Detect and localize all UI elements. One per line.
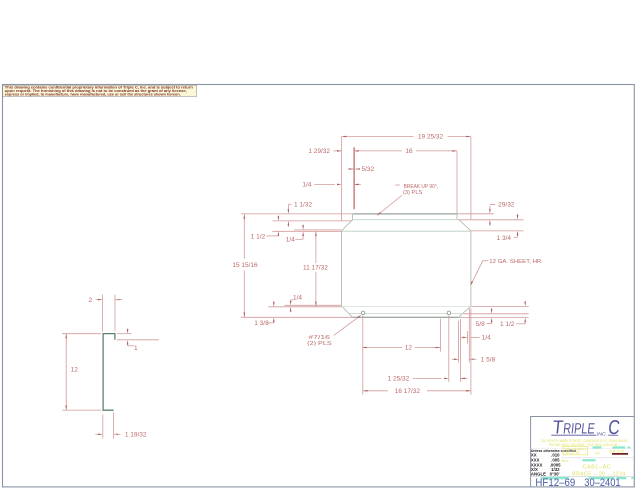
appd strike line <box>612 453 628 455</box>
svg-text:15 15/16: 15 15/16 <box>232 262 258 269</box>
extension lines bottom <box>362 316 364 395</box>
hole right <box>447 311 451 315</box>
dim 11 17/32 <box>315 231 317 263</box>
svg-text:1 1/2: 1 1/2 <box>500 321 515 328</box>
svg-text:12: 12 <box>71 367 79 374</box>
bend line bottom <box>342 306 471 308</box>
svg-text:1 29/32: 1 29/32 <box>308 148 330 155</box>
svg-text:(3) PLS: (3) PLS <box>403 190 423 196</box>
dim 5/32 <box>347 168 353 170</box>
dim 1 3/4 <box>517 214 519 216</box>
dim 5/8 <box>491 308 493 309</box>
svg-text:210 SOUTH MAIN STREET, CHARLE: 210 SOUTH MAIN STREET, CHARLES CITY, IOW… <box>541 439 628 443</box>
svg-text:5/32: 5/32 <box>361 166 374 173</box>
dim 16 17/32 <box>363 390 388 392</box>
svg-text:1: 1 <box>134 345 138 352</box>
svg-text:HF12–69: HF12–69 <box>535 477 575 489</box>
svg-text:1 3/4: 1 3/4 <box>497 235 512 242</box>
svg-text:CABL–AC: CABL–AC <box>583 465 612 471</box>
svg-text:1/4: 1/4 <box>293 294 302 301</box>
dim 1/4 upper <box>314 183 335 185</box>
dim 1/4 left <box>302 224 304 227</box>
profile dim 12 <box>62 333 101 335</box>
svg-text:5/8: 5/8 <box>476 321 485 328</box>
field labels (cyan highlights) <box>541 446 634 479</box>
dim 1 1/32 <box>288 203 291 205</box>
svg-text:12 GA. SHEET, HR: 12 GA. SHEET, HR <box>489 259 541 265</box>
svg-text:12: 12 <box>405 345 413 352</box>
svg-text:JRM 10.95: JRM 10.95 <box>609 449 625 453</box>
dim 19 25/32 <box>342 136 414 138</box>
dim 1/4 right <box>461 336 463 338</box>
profile dim 1 19/32 <box>102 415 104 439</box>
svg-text:1 1/32: 1 1/32 <box>294 201 312 208</box>
part outline: right side <box>457 214 471 317</box>
svg-text:1 3/8: 1 3/8 <box>254 320 269 327</box>
drawing numbers <box>535 477 620 489</box>
svg-text:INC.: INC. <box>597 431 608 436</box>
svg-text:16: 16 <box>405 148 413 155</box>
bend line lip <box>353 219 459 221</box>
profile view <box>103 334 115 411</box>
svg-text:ANGLE: ANGLE <box>531 471 546 476</box>
svg-text:19 25/32: 19 25/32 <box>418 134 444 141</box>
svg-text:express or implied, to manufac: express or implied, to manufacture, have… <box>5 92 181 96</box>
svg-text:16 17/32: 16 17/32 <box>395 388 421 395</box>
part outline main view: top edge <box>353 213 457 215</box>
svg-text:1 5/8: 1 5/8 <box>481 357 496 364</box>
hole left <box>361 311 365 315</box>
dim 1 5/8 <box>452 358 454 360</box>
svg-text:11 17/32: 11 17/32 <box>303 265 328 272</box>
dim 12 <box>362 347 402 349</box>
logo TRIPLE C <box>551 417 621 439</box>
svg-text:10–17–95: 10–17–95 <box>565 451 579 455</box>
part outline: bottom edge <box>352 316 458 318</box>
dim 1 1/2 right <box>524 301 526 302</box>
svg-text:1 25/32: 1 25/32 <box>388 376 410 383</box>
svg-text:(2) PLS: (2) PLS <box>307 341 332 347</box>
title block <box>531 417 634 488</box>
svg-text:2: 2 <box>88 297 92 304</box>
svg-text:1/4: 1/4 <box>482 335 491 342</box>
note hole callout 7/16 <box>334 316 360 335</box>
bend line holes <box>350 313 464 315</box>
note 12 GA sheet <box>483 260 488 262</box>
svg-text:1/4: 1/4 <box>302 182 311 189</box>
dim 1/4 bottom left <box>290 299 292 302</box>
extension lines left <box>241 213 352 215</box>
dim 1 3/8 <box>273 301 275 302</box>
dim 29/32 <box>489 206 491 210</box>
extension lines top <box>341 137 343 221</box>
yellow field boxes/text <box>563 447 588 455</box>
profile dim 1 <box>117 333 132 335</box>
svg-text:1/4: 1/4 <box>286 237 295 244</box>
dim 1 1/2 left <box>277 215 279 216</box>
svg-text:1/8: 1/8 <box>595 451 600 455</box>
svg-text:29/32: 29/32 <box>498 201 515 208</box>
svg-text:1 1/2: 1 1/2 <box>251 233 266 240</box>
svg-text:C: C <box>607 417 621 439</box>
dim 16 <box>333 150 341 152</box>
bend line flange <box>342 230 471 232</box>
svg-text:N/A: N/A <box>562 459 569 463</box>
tolerance table <box>531 449 576 476</box>
note break up <box>395 184 400 186</box>
part outline: left side <box>342 214 353 317</box>
profile dim 2 <box>102 295 104 332</box>
dim 1 25/32 <box>413 377 442 379</box>
svg-text:0°30': 0°30' <box>550 471 560 476</box>
proprietary note block <box>3 85 197 96</box>
dim 15 15/16 <box>243 214 245 259</box>
extension lines right <box>457 213 494 215</box>
svg-text:30–2401: 30–2401 <box>584 477 620 489</box>
svg-text:1 19/32: 1 19/32 <box>125 432 147 439</box>
